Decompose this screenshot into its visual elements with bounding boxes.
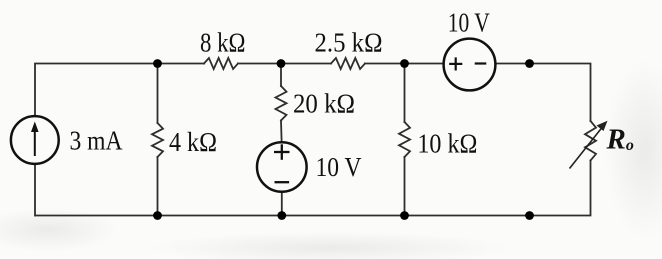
resistor R 8k zigzag — [204, 58, 238, 69]
wire top rail: top-left corner to 8k resistor — [35, 64, 204, 116]
wire 10k branch top — [404, 64, 406, 123]
variable resistor Ro arrow — [570, 121, 608, 169]
node dot top of 20k — [277, 59, 286, 68]
voltage source V2 plus — [449, 57, 486, 70]
node dot top of 10k — [400, 59, 409, 68]
wire 4k branch bottom — [157, 157, 159, 216]
wire top rail: 2.5k to source V2 — [365, 63, 444, 65]
svg-text:20 kΩ: 20 kΩ — [293, 89, 355, 119]
wire 20k branch top — [280, 64, 282, 87]
wire 10k branch bottom — [404, 157, 406, 216]
voltage source V2 minus — [475, 62, 487, 64]
voltage source V2 circle (10 V top) — [444, 39, 496, 91]
node dot top of 4k — [153, 59, 162, 68]
svg-text:8 kΩ: 8 kΩ — [200, 28, 246, 58]
svg-text:3 mA: 3 mA — [70, 126, 123, 156]
svg-text:10 V: 10 V — [316, 152, 362, 182]
wire 20k to source V1 — [280, 121, 283, 142]
svg-text:4 kΩ: 4 kΩ — [169, 127, 217, 157]
resistor R 10k zigzag — [399, 122, 410, 157]
resistor R 4k zigzag — [152, 123, 163, 157]
resistor R 2.5k zigzag — [331, 58, 365, 69]
svg-text:10 V: 10 V — [448, 7, 490, 37]
node dot right of V2 — [525, 59, 534, 68]
voltage source V1 circle (10 V middle) — [257, 142, 307, 192]
resistor R 20k zigzag — [276, 86, 287, 121]
wire top rail: V2 right side to top-right corner, down to Ro — [496, 64, 591, 122]
current source I1 circle — [11, 116, 59, 164]
node dot bottom of V1 — [277, 211, 286, 220]
wire right vertical: Ro to bottom-right corner — [36, 161, 591, 216]
wire top rail: 8k to 2.5k — [238, 63, 331, 65]
node dot bottom of 4k — [153, 211, 162, 220]
voltage source V1 minus — [275, 181, 290, 183]
node dot bottom of 10k — [400, 211, 409, 220]
svg-text:2.5 kΩ: 2.5 kΩ — [315, 28, 383, 58]
current source I1 arrow — [31, 122, 39, 157]
wire 4k branch top — [157, 64, 159, 124]
svg-text:10 kΩ: 10 kΩ — [417, 129, 477, 159]
resistor Ro zigzag (variable) — [585, 121, 596, 161]
voltage source V1 plus — [274, 144, 290, 182]
node dot bottom right — [525, 211, 534, 220]
wire left vertical below source I1 — [34, 165, 36, 216]
wire V1 bottom to rail — [281, 193, 283, 216]
